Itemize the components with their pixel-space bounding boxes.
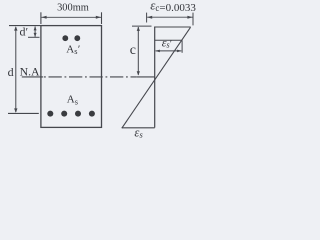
dimension c: vertical arrow line [137,27,139,75]
dimension d': bottom tick [28,36,40,38]
dimension eps_c: arrow line [147,16,192,18]
svg-text:c: c [130,43,136,58]
c dimension top tick [132,25,152,27]
rebar A_s dot 1 [47,111,53,117]
dimension c: bottom arrowhead [137,71,140,75]
neutral axis solid right end [136,76,155,78]
dimension d: vertical line [15,27,17,112]
rebar A_s' dot 1 [62,35,68,41]
rebar A_s' dot 2 [74,35,80,41]
strain diagram: bottom edge [122,127,155,129]
dimension eps_c: left tick [146,13,148,23]
strain diagram: zero-strain vertical axis [154,27,156,128]
svg-text:d′: d′ [20,24,29,38]
strain at A_s' level: horizontal line [155,39,182,41]
top reference extension line (left of beam) [9,25,41,27]
dimension c: top arrowhead [137,27,140,31]
dimension 300mm: right tick [101,12,103,24]
dimension d': arrow line [34,27,36,37]
dimension eps_s': right arrowhead [177,50,182,53]
dimension 300mm: arrow line [42,16,102,18]
dimension eps_c: right arrowhead [187,16,192,19]
strain diagram: top edge [154,26,191,28]
rebar A_s dot 3 [75,111,81,117]
rebar A_s dot 2 [61,111,67,117]
rebar A_s dot 4 [89,111,95,117]
dimension d': top arrowhead [34,26,37,30]
dimension 300mm: right arrowhead [96,16,101,19]
dimension 300mm: left tick [40,12,42,24]
neutral axis dash-dot pattern [44,76,136,78]
dimension eps_s': left arrowhead [155,50,160,53]
svg-text:300mm: 300mm [57,3,89,14]
dimension eps_c: right tick [192,13,194,26]
dimension d': bottom arrowhead [34,33,37,37]
dimension d: bottom arrowhead [14,108,17,112]
dimension eps_s': arrow line [156,50,182,52]
dimension d: top arrowhead [14,26,17,30]
dimension d: bottom tick [8,112,39,114]
svg-text:As′: As′ [66,43,80,56]
neutral axis dash-dot line [22,76,43,78]
beam section outline [41,26,102,128]
strain diagram: diagonal strain line [122,27,191,128]
dimension eps_c: left arrowhead [147,16,152,19]
dimension 300mm: left arrowhead [41,16,46,19]
svg-text:d: d [8,65,14,79]
strain at A_s' level: right tick [181,40,183,53]
